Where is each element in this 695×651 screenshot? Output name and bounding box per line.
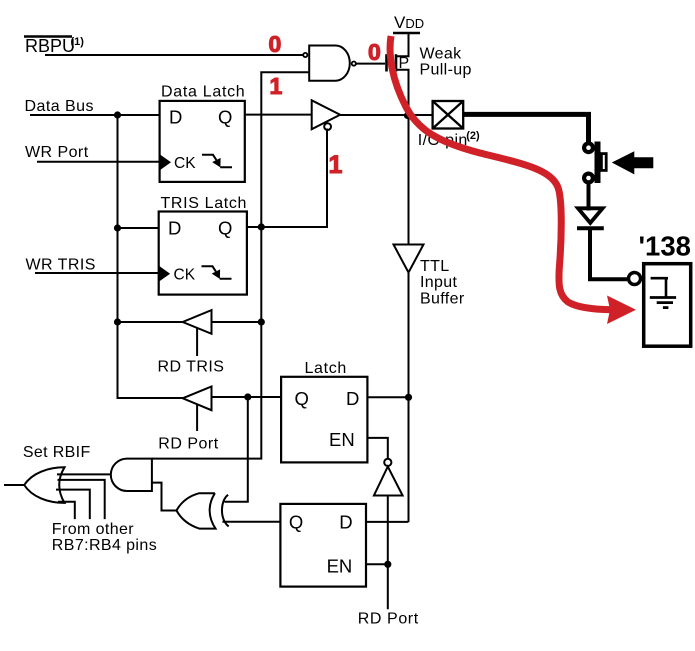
junction data bus: [114, 111, 121, 118]
switch SW1 push button: [584, 142, 606, 184]
wire diode to '138 pin: [590, 229, 627, 280]
svg-text:VDD: VDD: [394, 13, 424, 32]
svg-text:Q: Q: [295, 388, 309, 409]
junction latch D: [405, 394, 412, 401]
latch U2 Data Latch: [160, 84, 246, 182]
wire WR Port: [37, 161, 160, 163]
wire internal bus vertical: [118, 115, 183, 398]
wire RD TRIS input: [212, 321, 262, 323]
wire thick pin to switch: [463, 114, 588, 142]
transistor Q1 P-channel weak pull-up: [387, 34, 410, 80]
svg-text:Buffer: Buffer: [420, 290, 465, 307]
latch U8 input Latch: [281, 360, 367, 462]
wire OR input stub 3: [58, 502, 75, 519]
buffer U7 RD Port (points left): [158, 387, 218, 453]
junction latch Q tap: [244, 393, 251, 400]
junction RD TRIS in: [258, 318, 265, 325]
latch U3 TRIS Latch: [159, 195, 247, 295]
wire NAND output to PMOS gate: [357, 63, 386, 65]
wire TRIS Q to tri-state enable: [247, 129, 327, 228]
nand gate U1: [303, 46, 356, 81]
svg-text:WR TRIS: WR TRIS: [26, 257, 96, 274]
diode D1: [577, 208, 604, 228]
arrow press indicator: [612, 151, 654, 174]
junction RD TRIS out: [114, 318, 121, 325]
buffer U6 RD TRIS (points left): [158, 310, 225, 375]
svg-text:EN: EN: [329, 429, 355, 450]
wire bottom latch EN / RD Port: [366, 564, 388, 609]
wire latch D to pin line: [367, 396, 408, 398]
wire inverter input: [387, 496, 389, 565]
wire Data Bus: [30, 114, 160, 116]
and gate U12 (points left): [111, 459, 152, 491]
svg-text:0: 0: [368, 39, 381, 65]
red arrowhead: [607, 296, 636, 325]
latch U10 (bottom): [280, 504, 366, 587]
svg-text:Latch: Latch: [305, 360, 347, 377]
inverter U9 (points up): [374, 459, 403, 496]
wire bottom latch Q to XOR: [222, 521, 280, 523]
buffer U5 TTL input buffer: [394, 245, 424, 273]
svg-text:1: 1: [270, 73, 283, 99]
svg-text:D: D: [168, 217, 181, 238]
wire Data latch Q to output buffer: [246, 114, 312, 116]
svg-text:EN: EN: [327, 555, 353, 576]
svg-text:D: D: [339, 511, 352, 532]
svg-text:Set RBIF: Set RBIF: [23, 444, 91, 461]
pin bubble on '138: [629, 273, 641, 285]
svg-text:RD Port: RD Port: [358, 611, 419, 628]
wire tri-state output to I/O pin: [340, 114, 433, 116]
wire TRIS D input: [118, 227, 159, 229]
svg-text:TTL: TTL: [420, 258, 450, 275]
I/O pin symbol (crossed box): [433, 101, 464, 129]
IC '138 box: [644, 264, 691, 347]
svg-text:TRIS Latch: TRIS Latch: [161, 195, 248, 212]
svg-text:(1): (1): [71, 36, 85, 48]
wire OR input stub 1: [58, 480, 105, 519]
svg-text:CK: CK: [174, 155, 196, 172]
svg-text:(2): (2): [466, 130, 480, 142]
junction TRIS D tap: [114, 224, 121, 231]
svg-text:Q: Q: [218, 107, 232, 128]
junction EN node: [384, 561, 391, 568]
wire latch EN from inverter: [367, 438, 387, 458]
svg-text:Input: Input: [420, 274, 458, 291]
svg-text:1: 1: [329, 151, 343, 179]
svg-text:'138: '138: [639, 231, 691, 262]
junction pin node: [404, 112, 411, 119]
wire pin node down to TTL buffer: [408, 115, 410, 245]
wire AND output to OR: [57, 473, 111, 475]
xor gate U11 (points left): [177, 493, 229, 528]
svg-text:RD TRIS: RD TRIS: [158, 359, 225, 376]
svg-text:0: 0: [269, 31, 282, 57]
svg-text:D: D: [169, 107, 182, 128]
svg-text:Data Latch: Data Latch: [161, 84, 245, 101]
svg-text:RB7:RB4 pins: RB7:RB4 pins: [52, 537, 157, 554]
red highlight path from pull-up to '138: [390, 36, 612, 310]
wire TRIS Q vertical to AND gate: [152, 227, 261, 459]
wire RD TRIS output: [118, 321, 183, 323]
wire XOR output to AND input: [152, 483, 177, 511]
wire PMOS drain down to pin node: [408, 70, 410, 116]
svg-text:WR Port: WR Port: [25, 144, 89, 161]
wire WR TRIS: [35, 272, 159, 274]
wire bottom latch D: [366, 521, 409, 523]
wire NAND lower input from TRIS Q vertical: [261, 72, 309, 227]
svg-text:From other: From other: [52, 521, 135, 538]
buffer U4 tri-state output driver: [312, 100, 340, 130]
svg-text:Weak: Weak: [420, 45, 463, 62]
svg-text:RBPU: RBPU: [25, 36, 75, 56]
wire latch Q to RD Port buffer: [212, 396, 282, 398]
wire RBPU to NAND top input: [45, 54, 303, 56]
svg-text:D: D: [346, 388, 359, 409]
wire Set RBIF output: [4, 484, 24, 486]
wire TTL buffer output down to latch D: [408, 273, 410, 523]
net label RBPU(1): [24, 36, 84, 56]
wire switch to diode: [587, 183, 591, 211]
wire XOR top input from latch Q tap: [225, 397, 248, 502]
svg-text:Pull-up: Pull-up: [420, 61, 472, 78]
or gate U13 Set RBIF (points left): [24, 467, 64, 503]
ground symbol inside '138: [650, 277, 676, 308]
wire OR input stub 2: [56, 490, 90, 519]
svg-text:P: P: [399, 55, 410, 72]
power VDD: [393, 13, 424, 33]
junction TRIS Q: [258, 223, 265, 230]
svg-text:Q: Q: [218, 217, 232, 238]
svg-text:RD Port: RD Port: [158, 436, 218, 453]
svg-text:CK: CK: [174, 267, 196, 284]
svg-text:Data Bus: Data Bus: [25, 98, 94, 115]
svg-text:Q: Q: [289, 512, 303, 533]
